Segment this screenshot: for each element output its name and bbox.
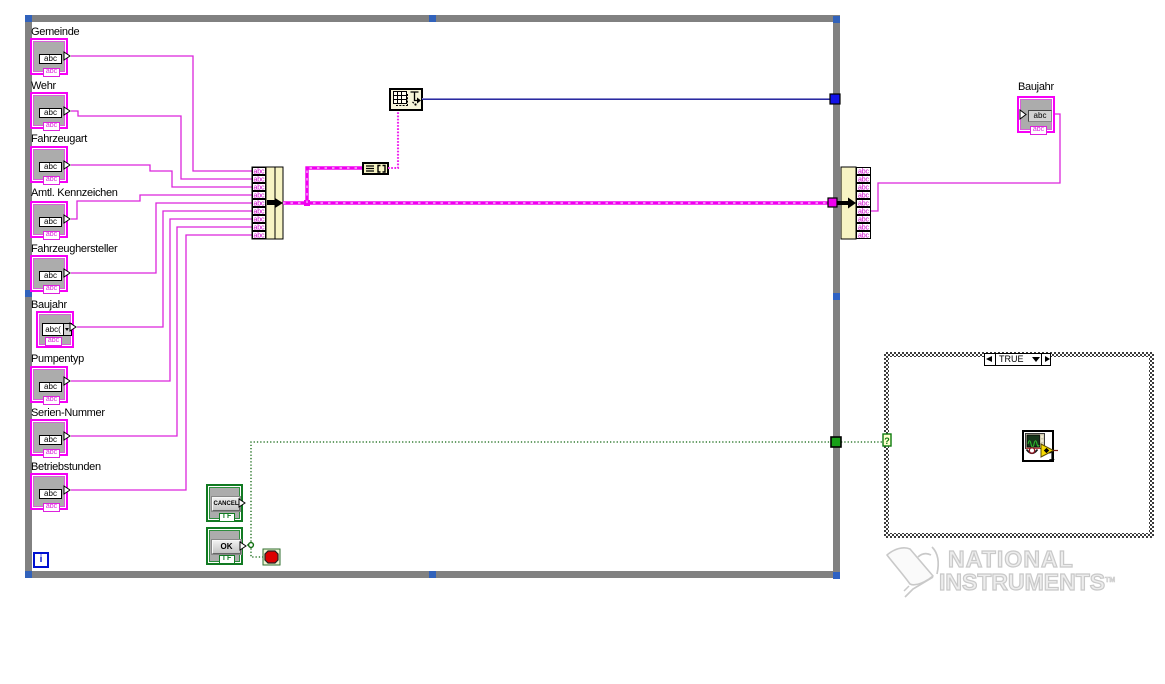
output terminal arrow of Baujahr xyxy=(70,323,76,331)
wire Amtl. Kennzeichen to bundle row 4 xyxy=(71,195,252,219)
string control Baujahr terminal xyxy=(36,311,74,348)
wire Betriebstunden to bundle row 9 xyxy=(71,235,252,490)
boolean control CANCEL xyxy=(206,484,243,522)
arrow tunnel to unbundle xyxy=(837,198,856,209)
output terminal arrow of CANCEL xyxy=(239,499,245,507)
selection handle bottom-right xyxy=(833,572,840,579)
wire Pumpentyp to bundle row 7 xyxy=(71,219,252,381)
string control Baujahr label xyxy=(31,300,67,311)
string control Fahrzeughersteller label xyxy=(31,244,117,255)
wire Fahrzeugart to bundle row 3 xyxy=(71,165,252,187)
selection handle top-left xyxy=(25,15,32,22)
blue tunnel on loop border xyxy=(830,94,840,104)
string control Wehr label xyxy=(31,81,56,92)
output terminal arrow of Wehr xyxy=(64,107,70,115)
string control Serien-Nummer label xyxy=(31,408,105,419)
unbundle node (9 string outputs) xyxy=(841,167,871,239)
array to spreadsheet string node xyxy=(390,89,422,110)
string control Fahrzeughersteller terminal xyxy=(30,255,68,292)
cluster wire bundle output to right tunnel xyxy=(283,201,829,204)
cluster tunnel on loop border xyxy=(828,198,837,207)
stop function icon xyxy=(263,549,280,565)
string control Betriebstunden label xyxy=(31,462,101,473)
output terminal arrow of Fahrzeugart xyxy=(64,161,70,169)
selector right arrow xyxy=(1045,356,1050,362)
numeric wire spreadsheet node to right tunnel xyxy=(422,99,831,100)
boolean wire junction to stop xyxy=(251,545,263,557)
build array node xyxy=(363,163,388,174)
string control Amtl. Kennzeichen terminal xyxy=(30,201,68,238)
selection handle bottom-left xyxy=(25,571,32,578)
selector dropdown arrow xyxy=(1032,357,1040,362)
selection handle top-right xyxy=(833,16,840,23)
wire Serien-Nummer to bundle row 8 xyxy=(71,227,252,436)
output terminal arrow of Betriebstunden xyxy=(64,486,70,494)
string control Pumpentyp terminal xyxy=(30,366,68,403)
while loop border xyxy=(25,15,840,578)
case structure border (checkered) xyxy=(884,352,1154,538)
output terminal arrow of Gemeinde xyxy=(64,52,70,60)
wire Fahrzeughersteller to bundle row 5 xyxy=(71,203,252,273)
string wire unbundle row6 to Baujahr indicator xyxy=(871,114,1060,211)
boolean wire junction up and right to case selector tunnel xyxy=(251,442,883,545)
output terminal arrow of Pumpentyp xyxy=(64,377,70,385)
string control Fahrzeugart terminal xyxy=(30,146,68,183)
array wire build array to spreadsheet node xyxy=(388,110,398,168)
string control Pumpentyp label xyxy=(31,354,84,365)
case selector label TRUE xyxy=(984,353,1051,366)
National Instruments eagle logo xyxy=(887,547,938,597)
selection handle left-middle xyxy=(25,290,32,297)
case selector tunnel ? xyxy=(883,434,891,446)
string control Serien-Nummer terminal xyxy=(30,419,68,456)
selection handle top-middle xyxy=(429,15,436,22)
string control Fahrzeugart label xyxy=(31,134,87,145)
wire Baujahr to bundle row 6 xyxy=(77,211,252,327)
string control Wehr terminal xyxy=(30,92,68,129)
sub VI icon (DAQ assistant) xyxy=(1023,431,1058,463)
output terminal arrow of Fahrzeughersteller xyxy=(64,269,70,277)
string control Betriebstunden terminal xyxy=(30,473,68,510)
wire Gemeinde to bundle row 1 xyxy=(71,56,252,171)
selection handle bottom-middle xyxy=(429,571,436,578)
bundle-by-name node (9 string inputs) xyxy=(252,167,283,239)
boolean control OK xyxy=(206,527,243,565)
string control Gemeinde label xyxy=(31,27,79,38)
indicator Baujahr terminal xyxy=(1017,96,1055,133)
cluster wire branch to build array xyxy=(307,168,363,203)
indicator Baujahr label xyxy=(1018,82,1054,93)
boolean wire junction dot xyxy=(249,543,254,548)
output terminal arrow of OK xyxy=(240,542,246,550)
wire Wehr to bundle row 2 xyxy=(71,111,252,179)
output terminal arrow of Amtl. Kennzeichen xyxy=(64,215,70,223)
boolean tunnel on loop border xyxy=(831,437,841,447)
string control Amtl. Kennzeichen label xyxy=(31,188,118,199)
selector left arrow xyxy=(986,356,992,362)
National Instruments watermark text xyxy=(948,548,1074,571)
wire junction on cluster wire xyxy=(304,200,310,206)
iteration terminal i xyxy=(33,552,49,568)
string control Gemeinde terminal xyxy=(30,38,68,75)
selection handle right-middle xyxy=(833,293,840,300)
output terminal arrow of Serien-Nummer xyxy=(64,432,70,440)
boolean wire OK to junction xyxy=(247,544,251,546)
string control Baujahr bottom tag xyxy=(45,337,62,346)
